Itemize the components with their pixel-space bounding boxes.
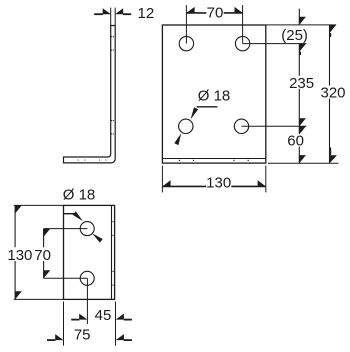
arrow down 320 bottom [330,155,338,163]
svg-text:Ø 18: Ø 18 [63,187,96,204]
top view 70 dimension line [43,229,45,248]
bottom hole center line down [86,278,88,324]
svg-text:70: 70 [207,4,224,21]
top view 130 top arrow [15,205,22,213]
hole top-right [235,36,249,50]
top view hole lower [80,271,94,285]
dimension 70 top left arrow [186,7,194,13]
right chain extension line bottom holes [242,125,307,127]
dimension 75 right tail [124,339,132,341]
top view 70 bottom arrow [44,270,51,278]
right chain extension line bottom edge [268,162,339,164]
top view plate hole edge dots [113,221,114,286]
dimension 45 right arrow [116,314,124,320]
top view 130 dimension line [14,205,16,247]
top view bend line [111,205,113,299]
arrow down at bottom holes [299,118,306,126]
hole bottom-left [179,119,193,133]
arrow up at top holes [299,44,306,52]
dimension 12 left arrow [103,8,111,14]
leader Ø18 front lower arrow [174,133,181,145]
right edge extension line down [115,302,117,346]
dimension 75 right arrow [116,334,124,340]
arrow up 320 top [330,25,337,33]
side view hole edge dots (lower hole) [111,120,114,134]
leader Ø18 top view lower arrow [92,233,103,242]
svg-text:70: 70 [34,247,51,264]
dimension 70 top right arrow [235,7,243,13]
center line top-left hole [185,5,187,44]
dimension 12 right tail [123,13,131,15]
top view hole extension line upper [44,228,88,230]
front dimension 130 line [162,185,206,187]
leader Ø18 top view upper arrow [73,211,83,221]
front 130 right arrow [258,180,266,186]
right chain extension line top holes [243,43,307,45]
arrow down at bottom edge [299,155,306,163]
leader Ø18 front upper arrow [191,107,199,119]
top view 130 bottom arrow [15,291,22,299]
side view hole edge dots (upper hole) [111,36,114,50]
front view bend line [162,158,265,160]
front 130 extension lines [161,166,163,193]
dimension 75 left arrow [55,334,63,340]
dimension 45 left tail [71,319,79,321]
chain dimension line 25/235/60 [298,9,300,25]
svg-text:130: 130 [7,247,32,264]
dimension 45 left arrow [79,314,87,320]
leader Ø18 top view horizontal [64,213,75,215]
svg-text:75: 75 [74,327,91,344]
hole top-left [179,36,193,50]
dimension 75 left tail [47,339,55,341]
front view foot-hole edge dots [179,160,249,161]
svg-text:130: 130 [206,175,231,192]
center line top-right hole [242,5,244,44]
svg-text:Ø 18: Ø 18 [198,87,231,104]
right chain extension line top edge [266,24,336,26]
top view extension line top edge [14,204,64,206]
top view extension line bottom edge [14,298,64,300]
side view foot hole dots [78,159,107,162]
left edge extension line down [63,302,65,346]
arrow down at top edge [299,17,306,25]
top view 70 top arrow [44,229,51,237]
dimension 70 top line [186,12,206,14]
hole bottom-right [234,119,248,133]
overall dimension line 320 [329,25,331,86]
top view hole upper [80,222,94,236]
arrow up at bottom holes [299,126,306,134]
svg-text:235: 235 [289,75,314,92]
front view plate outline [162,25,265,163]
thickness extension lines [110,8,112,26]
top view hole extension line lower [44,277,88,279]
svg-text:(25): (25) [281,27,308,44]
front 130 left arrow [162,180,170,186]
svg-text:12: 12 [138,5,155,22]
svg-text:60: 60 [287,133,304,150]
leader Ø18 front horizontal [197,106,218,108]
dimension 12 left tail [94,13,103,15]
svg-text:320: 320 [320,85,345,102]
top view outline [64,205,115,299]
dimension 12 right arrow [115,8,123,14]
side view L-profile outline [64,26,116,163]
svg-text:45: 45 [95,307,112,324]
dimension 45 right tail [124,319,132,321]
